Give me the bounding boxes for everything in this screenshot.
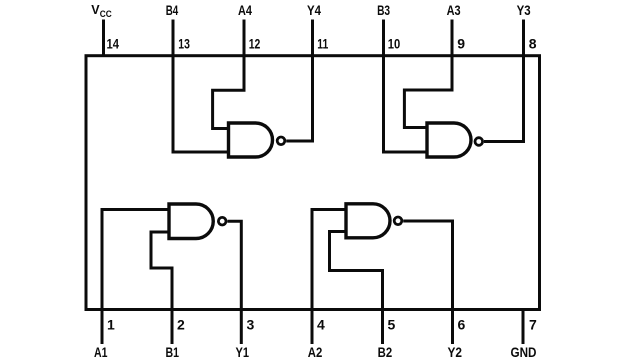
svg-text:11: 11 xyxy=(317,36,328,52)
svg-text:A4: A4 xyxy=(238,3,252,18)
svg-text:A1: A1 xyxy=(94,345,108,360)
svg-text:B3: B3 xyxy=(377,3,390,18)
svg-text:Y3: Y3 xyxy=(517,3,531,18)
svg-text:2: 2 xyxy=(177,317,185,333)
svg-text:3: 3 xyxy=(247,317,255,333)
svg-text:6: 6 xyxy=(458,317,466,333)
svg-text:14: 14 xyxy=(107,36,120,52)
svg-text:B2: B2 xyxy=(378,345,393,360)
svg-text:7: 7 xyxy=(529,317,537,333)
svg-text:9: 9 xyxy=(457,36,465,52)
svg-text:CC: CC xyxy=(100,9,112,20)
svg-text:B4: B4 xyxy=(166,3,179,18)
svg-text:A2: A2 xyxy=(308,345,323,360)
svg-text:10: 10 xyxy=(388,36,401,52)
svg-text:8: 8 xyxy=(529,36,537,52)
svg-text:Y1: Y1 xyxy=(236,345,250,360)
svg-text:12: 12 xyxy=(249,36,261,52)
svg-text:Y2: Y2 xyxy=(447,345,462,360)
svg-text:13: 13 xyxy=(178,36,190,52)
svg-text:B1: B1 xyxy=(165,345,179,360)
svg-text:GND: GND xyxy=(511,345,537,360)
svg-text:Y4: Y4 xyxy=(307,3,321,18)
svg-text:4: 4 xyxy=(317,317,325,333)
svg-text:1: 1 xyxy=(107,317,115,333)
svg-text:5: 5 xyxy=(388,317,396,333)
svg-text:A3: A3 xyxy=(447,3,461,18)
